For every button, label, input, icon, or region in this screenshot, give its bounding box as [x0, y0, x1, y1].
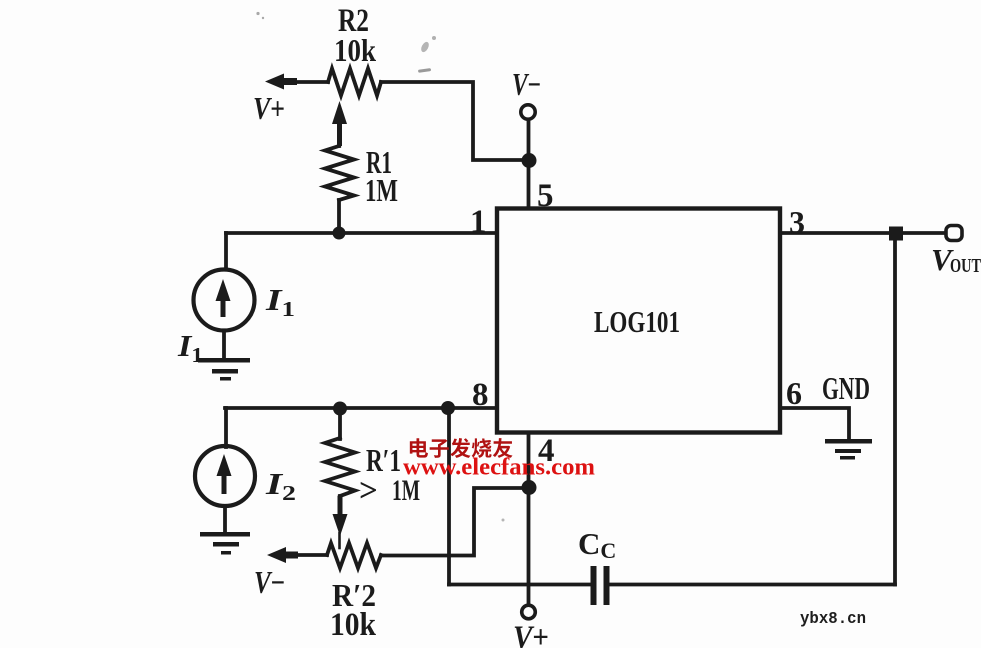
wire pin 1 horizontal [226, 231, 497, 235]
junction dot R'2/pin4 [522, 480, 537, 495]
wire V- terminal down to pin 5 [527, 119, 531, 209]
wire V+ arrow to R2 left [280, 80, 328, 84]
junction dot pin3/VOUT [889, 227, 903, 241]
wire down to I1 [224, 233, 228, 269]
svg-text:10k: 10k [330, 607, 377, 643]
wire R'2 right up to pin 4 junction [381, 488, 529, 556]
wire R2 right to corner down to V- junction [381, 82, 529, 160]
terminal V+ bottom [522, 605, 536, 619]
resistor R'1 [325, 438, 355, 496]
resistor R'2 [327, 543, 381, 568]
wire pin 8 horizontal [225, 406, 497, 410]
wire pin8 junction down to CC wire [447, 408, 451, 585]
svg-text:ybx8.cn: ybx8.cn [800, 610, 866, 629]
ground under I1 [198, 358, 250, 363]
svg-text:1M: 1M [365, 172, 398, 208]
wire I1 to ground [222, 331, 226, 359]
wire R1 top stem [337, 112, 341, 146]
svg-text:3: 3 [789, 204, 805, 240]
wire I2 to ground [223, 506, 227, 533]
wire R'1 bottom stem [338, 496, 342, 516]
svg-text:LOG101: LOG101 [594, 304, 680, 339]
wire pin 6 to ground [780, 408, 849, 441]
svg-text:1: 1 [470, 204, 487, 240]
ground GND pin6 [825, 439, 872, 444]
ground under I2 [200, 532, 250, 537]
svg-text:OUT: OUT [950, 255, 981, 277]
arrow V- bottom left [267, 547, 298, 563]
svg-text:V+: V+ [253, 90, 285, 126]
arrow inside I1 (up) [216, 279, 231, 317]
IC box U1 LOG101 [497, 209, 780, 433]
svg-text:6: 6 [786, 375, 802, 411]
arrow V+ top [265, 74, 297, 90]
svg-text:>: > [359, 473, 378, 509]
resistor R2 [328, 69, 381, 96]
junction dot V-/pin5 [522, 153, 537, 168]
wire V- arrow to R'2 left [282, 553, 327, 557]
svg-text:10k: 10k [334, 32, 376, 68]
wire pin 3 to VOUT terminal [780, 231, 946, 235]
junction dot CC branch/pin8 [441, 401, 455, 415]
svg-text:V+: V+ [513, 620, 549, 648]
svg-text:5: 5 [537, 178, 554, 214]
svg-text:GND: GND [822, 370, 870, 406]
wire CC left segment [449, 583, 590, 587]
capacitor CC plates [591, 566, 597, 605]
wire CC right segment to VOUT vertical [609, 583, 895, 587]
svg-text:V−: V− [512, 66, 541, 102]
wire R1 bottom to pin1 wire [337, 200, 341, 233]
resistor R1 [325, 146, 354, 200]
svg-text:8: 8 [472, 377, 489, 413]
current source I2 [195, 446, 255, 506]
wire pin 4 down to V+ terminal [527, 431, 531, 606]
terminal VOUT [946, 226, 962, 241]
arrow R1 top (up) [332, 101, 347, 146]
wire R'1 top stem [338, 408, 342, 439]
junction dot R'1/pin8 [333, 402, 347, 416]
svg-text:www.elecfans.com: www.elecfans.com [403, 455, 595, 481]
watermark chinese [410, 438, 513, 458]
current source I1 [194, 270, 255, 331]
junction dot R1/pin1 [333, 227, 346, 240]
arrow inside I2 (up) [217, 454, 232, 494]
arrow R'1 bottom (down) [333, 496, 348, 536]
wire down to I2 [224, 408, 228, 447]
wire VOUT vertical [893, 233, 897, 585]
terminal V- top [521, 105, 535, 119]
svg-text:V−: V− [254, 564, 285, 600]
